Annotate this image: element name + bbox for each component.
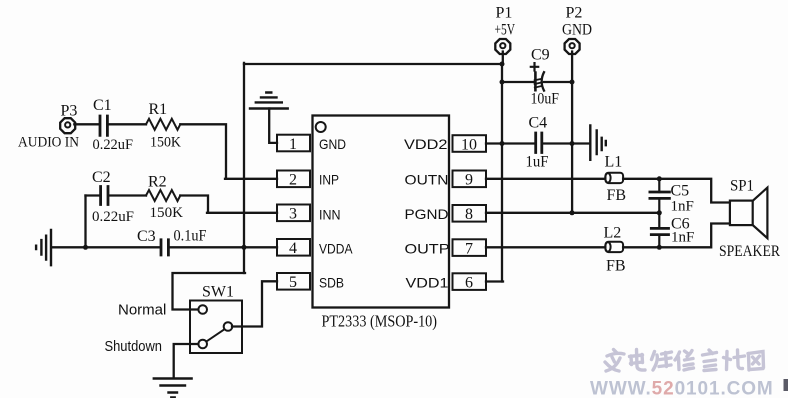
capacitor C9 (534, 73, 537, 91)
svg-text:1: 1 (289, 136, 297, 153)
svg-text:P1: P1 (496, 5, 513, 22)
svg-text:6: 6 (465, 275, 473, 292)
svg-text:Shutdown: Shutdown (105, 338, 163, 355)
pin 6 box (453, 273, 487, 290)
pin 7 box (453, 239, 487, 256)
svg-text:VDD1: VDD1 (406, 275, 449, 291)
switch SW1 box (190, 301, 242, 354)
capacitor C5 (658, 179, 660, 213)
svg-text:Normal: Normal (118, 302, 166, 319)
svg-text:150K: 150K (150, 135, 181, 151)
svg-text:PGND: PGND (405, 206, 449, 222)
svg-text:GND: GND (319, 136, 346, 152)
wire R2 to pin3 INN (180, 196, 277, 213)
svg-text:4: 4 (289, 240, 297, 257)
svg-text:C3: C3 (137, 228, 156, 245)
ground right of C4 (590, 126, 606, 160)
svg-text:C4: C4 (529, 115, 548, 132)
node OUTN/C5 (657, 176, 662, 181)
inductor L1 ferrite bead (606, 173, 624, 183)
pin 8 box (453, 205, 487, 222)
pin 4 box (277, 239, 310, 256)
wire P2 ground rail vertical (571, 52, 573, 213)
svg-text:VDDA: VDDA (319, 241, 353, 257)
svg-text:OUTP: OUTP (405, 241, 450, 257)
wire R1 to pin2 INP (180, 124, 277, 179)
pin 9 box (453, 171, 487, 188)
connector P2 (565, 39, 580, 54)
svg-text:10uF: 10uF (531, 91, 560, 108)
node VDDA rail (242, 245, 247, 250)
svg-text:P2: P2 (566, 5, 583, 22)
pin 2 box (277, 171, 310, 188)
svg-text:C1: C1 (93, 97, 112, 114)
node junction dots (83, 62, 662, 250)
svg-text:SW1: SW1 (202, 284, 234, 301)
svg-text:PT2333 (MSOP-10): PT2333 (MSOP-10) (322, 312, 438, 331)
connector P1 (495, 39, 510, 54)
pin 1 box (277, 135, 310, 152)
wire pin5 SDB to switch (232, 281, 277, 326)
svg-text:10: 10 (461, 137, 477, 154)
svg-text:GND: GND (562, 22, 592, 39)
svg-text:SP1: SP1 (730, 178, 754, 195)
wire C3 to pin4 VDDA (170, 246, 277, 248)
wire to C4 (502, 142, 534, 144)
wire C9 to gnd rail (544, 81, 571, 83)
svg-text:R2: R2 (148, 174, 167, 191)
switch SW1 contacts (198, 305, 207, 314)
pin 5 box (277, 273, 310, 290)
svg-text:0.1uF: 0.1uF (174, 228, 207, 245)
node +5V / top rail (500, 62, 505, 67)
svg-text:INN: INN (319, 207, 341, 223)
node C4 right gnd (570, 141, 575, 146)
ground SW1 (154, 379, 192, 398)
wire pin7 OUTP to L2 (486, 246, 605, 248)
ground above pin1 (250, 93, 288, 109)
svg-text:1nF: 1nF (671, 230, 694, 246)
capacitor C2 (101, 187, 108, 205)
pin 10 box (453, 135, 487, 152)
svg-text:WWW.520101.COM: WWW.520101.COM (590, 379, 774, 398)
svg-text:3: 3 (289, 206, 297, 223)
svg-text:INP: INP (319, 172, 339, 188)
wire left vertical +5V branch (243, 63, 245, 273)
wire C4 to gnd rail (543, 142, 572, 144)
svg-text:0.22uF: 0.22uF (92, 209, 134, 225)
svg-text:L1: L1 (605, 154, 623, 171)
svg-text:150K: 150K (150, 205, 184, 221)
wire ground to C3 (52, 246, 160, 248)
capacitor C1 (100, 116, 107, 135)
svg-text:P3: P3 (61, 103, 78, 120)
node pin10 VDD2 (500, 141, 505, 146)
wire C2 left vertical (84, 196, 86, 248)
node C2/ground (83, 245, 88, 250)
ground input left (36, 230, 51, 265)
capacitor C6 (658, 213, 660, 248)
label + C9 (531, 63, 538, 70)
wire C1 to R1 (109, 123, 146, 125)
svg-text:+5V: +5V (495, 22, 516, 39)
svg-text:7: 7 (465, 241, 473, 258)
wire ground to pin1 GND (269, 109, 277, 143)
wire top +5V rail horizontal (244, 63, 502, 65)
svg-text:2: 2 (289, 172, 297, 189)
node PGND gnd rail (570, 210, 575, 215)
svg-text:5: 5 (289, 274, 297, 291)
wire P1 down (501, 52, 504, 282)
svg-text:1uF: 1uF (526, 154, 549, 171)
wire to C9 (502, 81, 535, 83)
wire pin9 OUTN to L1 (486, 178, 605, 180)
wire C2 to R2 (109, 194, 146, 196)
connector P3 (60, 118, 75, 133)
node C9 left (500, 80, 505, 85)
pin 3 box (277, 205, 310, 222)
speaker SP1 (730, 201, 753, 226)
svg-text:SPEAKER: SPEAKER (719, 243, 780, 260)
node OUTP/C6 (657, 245, 662, 250)
svg-text:VDD2: VDD2 (404, 136, 448, 152)
wire pin10 to +5V rail (486, 142, 502, 144)
svg-text:R1: R1 (149, 101, 168, 118)
node C9 right gnd (570, 80, 575, 85)
watermark chinese characters (605, 350, 764, 372)
inductor L2 ferrite bead (606, 242, 624, 252)
svg-text:L2: L2 (604, 225, 622, 242)
resistor R1 (146, 119, 180, 130)
op-amp U1 PT2333 body (313, 116, 450, 308)
capacitor C3 (161, 240, 168, 255)
U1 pin1 marker (316, 122, 326, 132)
svg-text:SDB: SDB (319, 275, 344, 291)
svg-text:C9: C9 (531, 47, 550, 64)
svg-text:FB: FB (607, 187, 627, 204)
wire pin6 VDD1 to +5V rail (486, 280, 503, 282)
capacitor C4 (536, 133, 542, 153)
wire P3 to C1 (74, 123, 98, 125)
wire pin8 PGND (486, 212, 659, 214)
svg-text:C2: C2 (92, 169, 111, 186)
svg-text:FB: FB (606, 258, 626, 275)
wire L1 to speaker top (623, 179, 730, 203)
wire gnd rail to ground symbol (572, 142, 589, 144)
svg-text:8: 8 (465, 206, 473, 223)
svg-text:9: 9 (465, 172, 473, 189)
svg-text:1nF: 1nF (671, 199, 694, 215)
svg-text:C5: C5 (671, 183, 690, 200)
wire shutdown to ground (174, 344, 199, 378)
wire to C2 (86, 194, 100, 196)
node PGND/C5/C6 (657, 210, 662, 215)
svg-text:0.22uF: 0.22uF (93, 137, 134, 153)
watermark edge fragment (784, 379, 788, 391)
wire L2 to speaker bottom (623, 224, 730, 248)
svg-text:AUDIO IN: AUDIO IN (18, 135, 79, 151)
switch SW1 arm (207, 329, 225, 341)
svg-text:OUTN: OUTN (405, 172, 449, 188)
wire elbow to SW1 normal (173, 273, 246, 310)
resistor R2 (146, 190, 180, 201)
